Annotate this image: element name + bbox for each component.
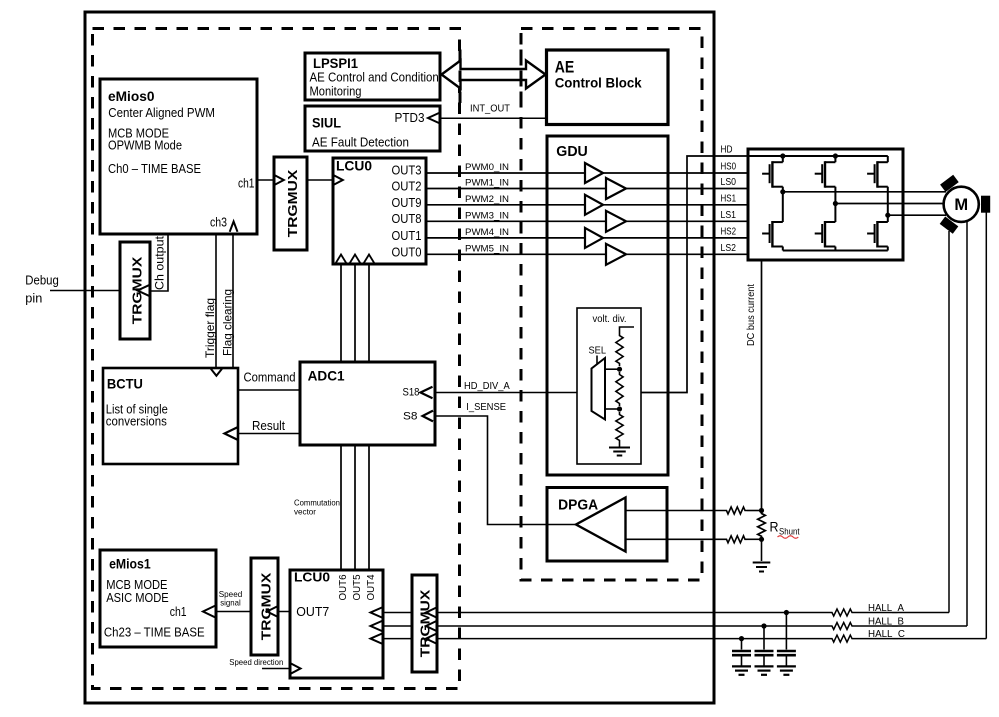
svg-text:eMios0: eMios0 — [108, 89, 155, 104]
wire gate drive LS2 — [626, 253, 748, 255]
ground RShunt — [753, 563, 771, 572]
svg-text:SEL: SEL — [589, 346, 607, 357]
label TRGMUX U4 — [259, 572, 274, 640]
arrow TRGMUX4 out — [267, 606, 278, 617]
wire phase A — [783, 191, 946, 193]
wire commutation vector a — [340, 445, 342, 570]
svg-text:HD: HD — [721, 145, 733, 156]
label Command — [244, 371, 296, 385]
wire Speed direction — [262, 668, 290, 670]
arrow trigger into BCTU — [211, 369, 222, 376]
block DPGA — [547, 488, 667, 562]
svg-text:HS2: HS2 — [721, 226, 737, 237]
wire eMios0 ch1 to TRGMUX — [257, 179, 274, 181]
label LCU0 U2 — [294, 570, 330, 584]
block ADC1 — [300, 362, 435, 445]
transistor Q3 HS-C — [867, 156, 888, 215]
wire LCU0 to ADC1 b — [354, 264, 356, 362]
node divider tap1 — [605, 367, 622, 372]
label HALL_B — [868, 616, 904, 627]
label SIUL — [312, 116, 341, 131]
label PWM2_IN — [465, 194, 509, 205]
wire HALL_C — [383, 638, 986, 640]
wire HD top rail — [748, 155, 888, 157]
hall sensor bottom — [940, 216, 959, 233]
resistor HALL_B — [830, 623, 854, 630]
node phase B — [833, 201, 838, 206]
gate driver buffer 1 — [606, 178, 626, 199]
resistor divider R1 — [616, 333, 623, 366]
resistor DPGA bottom — [725, 536, 748, 543]
svg-text:OUT6: OUT6 — [337, 574, 349, 600]
svg-text:Flag clearing: Flag clearing — [220, 289, 234, 356]
label GDU — [556, 144, 588, 160]
resistor DPGA top — [725, 507, 748, 514]
dashed AE domain box — [521, 29, 702, 581]
label PTD3 — [395, 110, 425, 125]
block AE Control Block — [547, 50, 669, 125]
svg-text:SIUL: SIUL — [312, 116, 341, 131]
label BCTU — [107, 377, 143, 392]
svg-text:DC bus current: DC bus current — [746, 284, 757, 346]
label HALL_C — [868, 629, 905, 640]
svg-text:R: R — [770, 520, 779, 535]
svg-text:signal: signal — [220, 598, 241, 608]
gate driver buffer 0 — [585, 163, 603, 183]
label PWM1_IN — [465, 178, 509, 189]
block TRGMUX U1 — [274, 157, 307, 250]
label MCB MODE eMios1 — [106, 577, 168, 592]
label LCU0 U1 — [336, 159, 372, 174]
capacitor C2 on HALL_B — [755, 623, 774, 674]
label Result — [252, 419, 285, 433]
label PWM3_IN — [465, 210, 509, 221]
svg-text:OUT7: OUT7 — [296, 605, 329, 619]
wire PWM3_IN — [426, 220, 606, 222]
svg-text:OUT1: OUT1 — [392, 229, 422, 243]
label DPGA — [558, 498, 598, 514]
squiggle spellcheck — [778, 536, 799, 539]
label Ch output — [155, 235, 167, 290]
svg-text:Command: Command — [244, 371, 296, 385]
label HS0 — [721, 162, 737, 173]
svg-text:Ch0 – TIME BASE: Ch0 – TIME BASE — [108, 161, 201, 176]
label Ch0 TIME BASE — [108, 161, 201, 176]
volt div input stub — [620, 327, 635, 333]
gate driver buffer 4 — [585, 228, 603, 248]
wire SEL — [596, 356, 598, 365]
arrow ch3 into eMios0 — [230, 222, 238, 232]
svg-text:ADC1: ADC1 — [308, 369, 345, 384]
svg-text:AE Control and Condition: AE Control and Condition — [310, 70, 439, 85]
svg-text:BCTU: BCTU — [107, 377, 143, 392]
svg-text:PWM2_IN: PWM2_IN — [465, 194, 509, 205]
arrow LCU0 bottom c — [364, 255, 375, 264]
label eMios0 — [108, 89, 155, 104]
block TRGMUX U3 hall — [412, 575, 437, 672]
label ch3 eMios0 — [210, 216, 227, 230]
label OUT4 — [365, 574, 377, 600]
wire debug pin — [50, 290, 120, 292]
svg-text:AE Fault Detection: AE Fault Detection — [312, 135, 409, 150]
wire PWM2_IN — [426, 204, 585, 206]
svg-text:Trigger flag: Trigger flag — [203, 298, 217, 358]
svg-text:HALL_A: HALL_A — [868, 603, 904, 614]
resistor HALL_A — [830, 609, 854, 616]
svg-text:TRGMUX: TRGMUX — [285, 169, 300, 237]
node HD-A — [780, 153, 785, 158]
label PWM4_IN — [465, 227, 509, 238]
wire shunt to ground — [761, 539, 763, 561]
wire INT_OUT — [440, 117, 547, 119]
arrow hall C into LCU0 — [371, 633, 384, 644]
transistor Q4 LS-A — [762, 192, 783, 251]
svg-text:OUT2: OUT2 — [392, 180, 422, 194]
label LS0 — [721, 177, 737, 188]
label HALL_A — [868, 603, 904, 614]
svg-text:pin: pin — [25, 292, 42, 306]
svg-text:OUT9: OUT9 — [392, 196, 422, 210]
node shunt top — [759, 508, 764, 513]
svg-text:OUT5: OUT5 — [351, 574, 363, 600]
svg-text:INT_OUT: INT_OUT — [470, 104, 510, 115]
label HS2 — [721, 226, 737, 237]
svg-text:OUT3: OUT3 — [392, 163, 422, 177]
svg-text:TRGMUX: TRGMUX — [259, 572, 274, 640]
svg-text:PWM0_IN: PWM0_IN — [465, 162, 509, 173]
motor M — [944, 187, 979, 222]
label OUT2 — [392, 180, 422, 194]
svg-text:ASIC MODE: ASIC MODE — [106, 590, 169, 605]
wire phase C — [888, 214, 946, 216]
label ASIC MODE — [106, 590, 169, 605]
svg-text:S8: S8 — [403, 411, 418, 423]
label eMios1 — [109, 556, 151, 571]
svg-text:OPWMB Mode: OPWMB Mode — [108, 138, 182, 153]
block eMios1 — [100, 550, 216, 647]
label S18 — [403, 387, 420, 399]
svg-text:AE: AE — [555, 58, 575, 77]
label OUT5 — [351, 574, 363, 600]
transistor Q1 HS-A — [762, 156, 783, 192]
label OPWMB Mode — [108, 138, 182, 153]
block TRGMUX U2 debug — [120, 242, 150, 339]
wire DPGA input bottom — [626, 538, 725, 540]
op-amp DPGA triangle — [576, 498, 626, 552]
label PWM0_IN — [465, 162, 509, 173]
label OUT9 — [392, 196, 422, 210]
svg-text:conversions: conversions — [106, 414, 167, 429]
wire commutation vector b — [354, 445, 356, 570]
wire Flag clearing — [232, 233, 234, 368]
svg-text:HALL_C: HALL_C — [868, 629, 905, 640]
label OUT3 — [392, 163, 422, 177]
arrow hall B TRGMUX3 — [426, 621, 438, 632]
label Speed direction — [229, 657, 283, 667]
svg-text:OUT8: OUT8 — [392, 212, 422, 226]
svg-text:PWM5_IN: PWM5_IN — [465, 243, 509, 254]
svg-text:LS2: LS2 — [721, 243, 737, 254]
svg-text:GDU: GDU — [556, 144, 588, 160]
label LS1 — [721, 210, 737, 221]
gate driver buffer 3 — [606, 211, 626, 232]
svg-text:Control Block: Control Block — [555, 76, 642, 91]
svg-text:ch1: ch1 — [238, 177, 255, 191]
wire gate drive LS0 — [626, 188, 748, 190]
wire shunt bottom — [747, 538, 762, 540]
svg-text:LS1: LS1 — [721, 210, 737, 221]
hall sensor top — [940, 175, 959, 192]
svg-text:volt. div.: volt. div. — [593, 314, 627, 325]
wire LCU0 to ADC1 a — [340, 264, 342, 362]
label S8 — [403, 411, 418, 423]
wire gate drive HS0 — [603, 172, 748, 174]
svg-text:I_SENSE: I_SENSE — [466, 402, 506, 413]
arrow hall A into LCU0 — [371, 607, 384, 618]
label conversions — [106, 414, 167, 429]
label List of single — [106, 401, 168, 416]
svg-text:PTD3: PTD3 — [395, 110, 425, 125]
arrow speed direction into LCU0 — [291, 663, 301, 674]
ground volt div — [609, 448, 630, 456]
resistor HALL_C — [830, 635, 854, 642]
label I_SENSE — [466, 402, 506, 413]
wire PWM1_IN — [426, 188, 606, 190]
svg-text:PWM1_IN: PWM1_IN — [465, 178, 509, 189]
svg-text:HD_DIV_A: HD_DIV_A — [464, 381, 510, 392]
wire phase B — [835, 203, 944, 205]
svg-text:HS1: HS1 — [721, 193, 737, 204]
label TRGMUX U2 — [129, 256, 144, 324]
svg-text:Monitoring: Monitoring — [310, 84, 362, 99]
wire DPGA input top — [626, 510, 725, 512]
svg-text:M: M — [954, 196, 968, 214]
svg-text:TRGMUX: TRGMUX — [418, 589, 433, 657]
svg-text:Result: Result — [252, 419, 285, 433]
label AE Fault Detection — [312, 135, 409, 150]
mux SEL trapezoid — [592, 358, 606, 420]
capacitor C3 on HALL_A — [777, 610, 796, 675]
wire HD_DIV_A S18 — [435, 392, 592, 394]
arrow hall B into LCU0 — [371, 621, 384, 632]
dashed MCU domain box — [93, 29, 460, 689]
label volt div — [593, 314, 627, 325]
label ch1 eMios1 — [170, 605, 187, 619]
block GDU — [547, 136, 668, 475]
label MCB MODE — [108, 126, 169, 141]
resistor divider R2 — [616, 372, 623, 406]
svg-text:OUT0: OUT0 — [392, 245, 422, 259]
transistor Q5 LS-B — [815, 204, 836, 251]
label AE Control and Condition — [310, 70, 439, 85]
arrow LCU0 bottom b — [350, 255, 361, 264]
node divider tap2 — [605, 406, 622, 411]
node phase C — [885, 213, 890, 218]
resistor RShunt — [758, 511, 766, 540]
label AE — [555, 58, 575, 77]
arrow into LCU0 — [334, 175, 343, 185]
wire Command — [238, 389, 300, 391]
wire HALL_A — [383, 612, 949, 614]
svg-text:OUT4: OUT4 — [365, 574, 377, 600]
gate driver buffer 2 — [585, 195, 603, 215]
wire Trigger flag — [215, 234, 217, 368]
label HS1 — [721, 193, 737, 204]
arrow hall C TRGMUX3 — [426, 633, 438, 644]
resistor divider R3 — [616, 412, 623, 443]
inverter bridge box — [748, 149, 903, 260]
wire Ch output — [150, 234, 168, 291]
label PWM5_IN — [465, 243, 509, 254]
block eMios0 — [100, 79, 257, 234]
svg-text:vector: vector — [294, 507, 316, 517]
label HD — [721, 145, 733, 156]
label HD_DIV_A — [464, 381, 510, 392]
svg-text:HALL_B: HALL_B — [868, 616, 904, 627]
label SEL — [589, 346, 607, 357]
svg-text:S18: S18 — [403, 387, 420, 399]
wire speed signal OUT7 — [216, 611, 290, 613]
label OUT1 — [392, 229, 422, 243]
arrow hall A TRGMUX3 — [426, 607, 438, 618]
label LPSPI1 — [313, 56, 358, 71]
wire LCU0 to ADC1 c — [368, 264, 370, 362]
wire hall sensor B vertical — [966, 221, 968, 626]
wire bridge bottom rail — [783, 250, 888, 252]
transistor Q2 HS-B — [815, 156, 836, 204]
block LCU0 U1 — [333, 158, 426, 264]
label Ch23 TIME BASE — [104, 624, 205, 639]
transistor Q6 LS-C — [867, 215, 888, 250]
label LS2 — [721, 243, 737, 254]
svg-text:Debug: Debug — [25, 274, 59, 288]
svg-text:ch3: ch3 — [210, 216, 227, 230]
label INT_OUT — [470, 104, 510, 115]
hall sensor right — [981, 196, 990, 213]
wire divider to ground — [619, 443, 621, 448]
arrow PTD3 into SIUL — [428, 113, 440, 124]
label TRGMUX U1 — [285, 169, 300, 237]
arrow Result into BCTU — [225, 427, 239, 440]
arrow ch1 into eMios1 — [203, 606, 216, 618]
arrow S18 into ADC1 — [421, 387, 433, 398]
node shunt bottom — [759, 537, 764, 542]
wire HD — [641, 156, 748, 393]
arrow LCU0 bottom a — [336, 255, 347, 264]
wire gate drive HS2 — [603, 237, 748, 239]
label TRGMUX U3 — [418, 589, 433, 657]
label Control Block — [555, 76, 642, 91]
label DC bus current — [746, 284, 757, 346]
wire hall sensor C vertical — [985, 212, 987, 639]
label Trigger flag — [203, 298, 217, 358]
capacitor C1 on HALL_C — [732, 636, 751, 675]
svg-text:Ch23 – TIME BASE: Ch23 – TIME BASE — [104, 624, 205, 639]
wire I_SENSE S8 — [435, 416, 576, 525]
wire DC bus current — [761, 259, 763, 511]
block SIUL — [305, 106, 440, 151]
label Commutation vector — [294, 498, 340, 517]
label Center Aligned PWM — [108, 105, 215, 120]
wire PWM0_IN — [426, 172, 585, 174]
svg-text:LCU0: LCU0 — [336, 159, 372, 174]
wire shunt top — [747, 510, 762, 512]
label Debug pin — [25, 274, 59, 306]
block BCTU — [103, 368, 238, 464]
label OUT7 — [296, 605, 329, 619]
node phase A — [780, 189, 785, 194]
label ADC1 — [308, 369, 345, 384]
label OUT6 — [337, 574, 349, 600]
arrow TRGMUX debug out — [138, 285, 151, 297]
svg-text:Ch output: Ch output — [155, 235, 167, 290]
label Speed signal — [219, 589, 243, 608]
wire HALL_B — [383, 625, 967, 627]
label Flag clearing — [220, 289, 234, 356]
node HD-B — [833, 153, 838, 158]
svg-text:eMios1: eMios1 — [109, 556, 151, 571]
block LPSPI1 — [305, 53, 440, 100]
block TRGMUX U4 speed — [251, 558, 278, 655]
volt div box — [577, 308, 641, 464]
wire PWM4_IN — [426, 237, 585, 239]
wire Result — [238, 433, 300, 435]
svg-text:ch1: ch1 — [170, 605, 187, 619]
label RShunt — [770, 520, 800, 538]
svg-text:HS0: HS0 — [721, 162, 737, 173]
label Monitoring — [310, 84, 362, 99]
svg-text:Center Aligned PWM: Center Aligned PWM — [108, 105, 215, 120]
label OUT8 — [392, 212, 422, 226]
svg-text:PWM4_IN: PWM4_IN — [465, 227, 509, 238]
double arrow LPSPI1-AE — [442, 61, 546, 89]
svg-text:Speed direction: Speed direction — [229, 657, 283, 667]
svg-text:PWM3_IN: PWM3_IN — [465, 210, 509, 221]
wire PWM5_IN — [426, 253, 606, 255]
svg-text:LCU0: LCU0 — [294, 570, 330, 584]
svg-text:DPGA: DPGA — [558, 498, 598, 514]
svg-text:LS0: LS0 — [721, 177, 737, 188]
gate driver buffer 5 — [606, 244, 626, 265]
outer MCU board frame — [85, 12, 714, 703]
wire hall sensor A vertical — [948, 231, 950, 613]
label ch1 eMios0 — [238, 177, 255, 191]
label OUT0 — [392, 245, 422, 259]
wire TRGMUX to LCU0 — [307, 179, 333, 181]
wire gate drive HS1 — [603, 204, 748, 206]
dashed border over arrow right — [520, 50, 523, 104]
dashed border over arrow left — [459, 50, 462, 104]
arrow S8 into ADC1 — [423, 411, 434, 422]
wire gate drive LS1 — [626, 220, 748, 222]
svg-text:TRGMUX: TRGMUX — [129, 256, 144, 324]
block LCU0 U2 — [290, 570, 383, 678]
arrow ch1 into TRGMUX — [275, 175, 284, 185]
wire commutation vector c — [368, 445, 370, 570]
